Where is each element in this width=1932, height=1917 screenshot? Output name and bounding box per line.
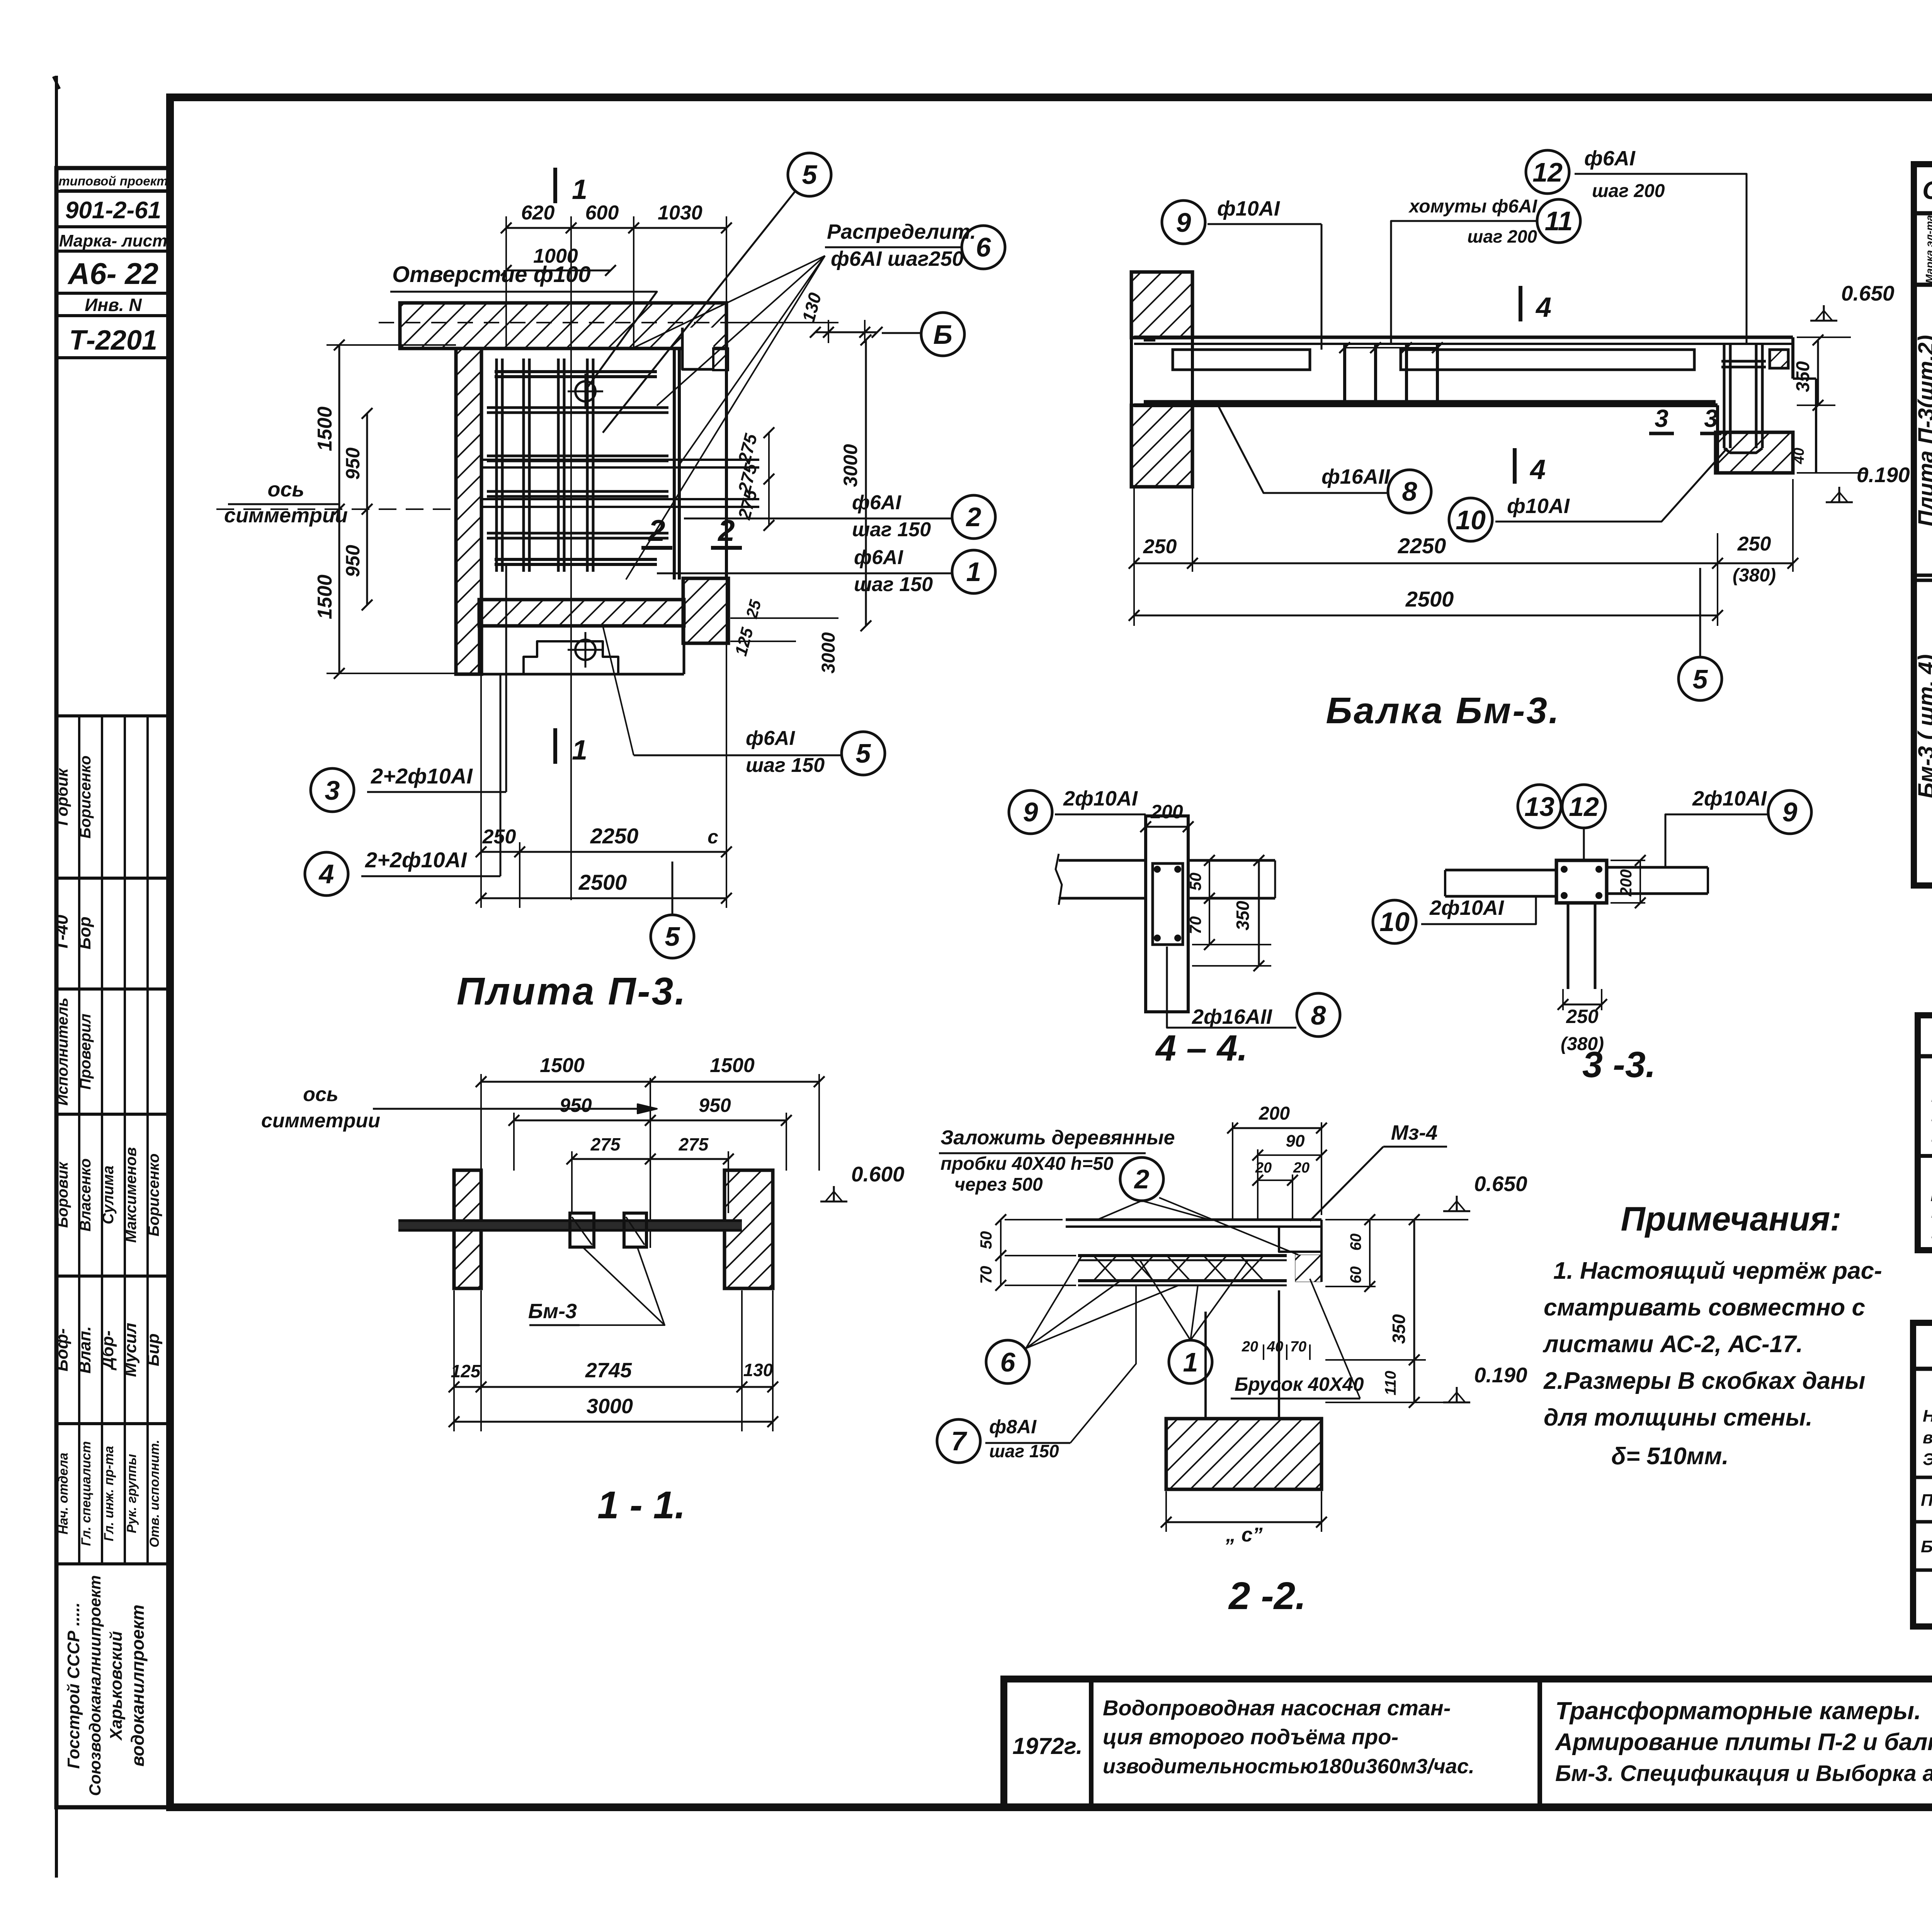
svg-text:Балка Бм-3.: Балка Бм-3. <box>1326 690 1560 731</box>
svg-text:1 - 1.: 1 - 1. <box>597 1484 685 1527</box>
svg-text:200: 200 <box>1617 869 1635 897</box>
svg-text:листами АС-2, АС-17.: листами АС-2, АС-17. <box>1543 1331 1803 1358</box>
svg-text:2 -2.: 2 -2. <box>1228 1574 1306 1618</box>
svg-text:Армирование плиты П-2 и бал: Армирование плиты П-2 и балки <box>1554 1729 1932 1756</box>
svg-text:350: 350 <box>1389 1314 1409 1344</box>
vyborka armatury table <box>1918 1015 1932 1250</box>
svg-text:1972г.: 1972г. <box>1012 1733 1082 1759</box>
svg-text:Бм-3. Спецификация и Выборка: Бм-3. Спецификация и Выборка арматуры. <box>1555 1761 1932 1786</box>
plita dimension lines <box>506 227 726 229</box>
svg-text:Марка эл-та: Марка эл-та <box>1923 215 1932 284</box>
svg-text:Бир: Бир <box>144 1334 163 1366</box>
svg-text:Борисенко: Борисенко <box>145 1154 162 1237</box>
svg-text:60: 60 <box>1347 1234 1364 1251</box>
svg-text:2250: 2250 <box>590 824 639 848</box>
svg-text:Боф-: Боф- <box>53 1328 71 1371</box>
svg-text:90: 90 <box>1286 1132 1305 1151</box>
beam outline and rebar <box>1134 336 1793 339</box>
svg-text:шаг 200: шаг 200 <box>1592 181 1665 201</box>
svg-text:40: 40 <box>1267 1339 1283 1355</box>
svg-text:1: 1 <box>966 557 981 587</box>
svg-text:ция второго подъёма про-: ция второго подъёма про- <box>1103 1725 1398 1749</box>
svg-text:Харьковский: Харьковский <box>107 1631 126 1741</box>
svg-text:275: 275 <box>679 1134 709 1154</box>
svg-text:Элемента: Элемента <box>1923 1450 1932 1469</box>
svg-text:9: 9 <box>1782 797 1798 827</box>
plita rebar grid <box>495 359 498 572</box>
svg-text:600: 600 <box>585 202 619 224</box>
svg-text:2ф10АI: 2ф10АI <box>1692 787 1767 810</box>
svg-text:„ с”: „ с” <box>1225 1524 1262 1546</box>
svg-text:через 500: через 500 <box>954 1174 1043 1195</box>
svg-text:60: 60 <box>1347 1266 1364 1284</box>
svg-text:350: 350 <box>1233 901 1253 930</box>
svg-text:110: 110 <box>1382 1371 1399 1395</box>
svg-text:пробки 40X40 h=50: пробки 40X40 h=50 <box>940 1154 1114 1174</box>
svg-text:10: 10 <box>1379 907 1410 937</box>
svg-text:250: 250 <box>1143 535 1177 558</box>
svg-text:Т-2201: Т-2201 <box>69 325 157 356</box>
svg-text:хомуты ф6АI: хомуты ф6АI <box>1408 196 1538 217</box>
svg-text:Б: Б <box>933 319 952 350</box>
svg-text:3000: 3000 <box>587 1395 633 1418</box>
svg-text:Гл. инж. пр-та: Гл. инж. пр-та <box>102 1446 116 1541</box>
svg-text:0.650: 0.650 <box>1474 1172 1527 1196</box>
svg-text:2+2ф10АI: 2+2ф10АI <box>371 764 473 788</box>
svg-text:4: 4 <box>1535 292 1551 323</box>
svg-text:1: 1 <box>572 174 587 205</box>
svg-text:ф10АI: ф10АI <box>1217 197 1280 220</box>
svg-text:Госстрой СССР .....: Госстрой СССР ..... <box>64 1603 83 1769</box>
svg-text:200: 200 <box>1259 1103 1290 1124</box>
svg-text:ось: ось <box>303 1083 338 1106</box>
svg-text:Бм-3 ( шт. 4): Бм-3 ( шт. 4) <box>1914 654 1932 798</box>
svg-text:вание: вание <box>1923 1428 1932 1447</box>
svg-text:1500: 1500 <box>314 574 336 619</box>
svg-text:Плита П-3.: Плита П-3. <box>457 970 687 1013</box>
svg-text:250: 250 <box>1737 533 1771 555</box>
svg-text:изводительностью180и360м3/час.: изводительностью180и360м3/час. <box>1103 1755 1475 1778</box>
svg-text:2.Размеры В скобках даны: 2.Размеры В скобках даны <box>1543 1368 1866 1394</box>
svg-text:250: 250 <box>1566 1006 1599 1027</box>
svg-text:Брусок 40X40: Брусок 40X40 <box>1235 1373 1364 1395</box>
svg-text:950: 950 <box>342 447 364 480</box>
svg-text:Трансформаторные камеры.: Трансформаторные камеры. <box>1555 1697 1921 1725</box>
svg-text:Союзводоканалниипроект: Союзводоканалниипроект <box>86 1575 104 1796</box>
svg-text:Исполнитель: Исполнитель <box>54 998 71 1106</box>
svg-text:Нач. отдела: Нач. отдела <box>56 1453 71 1535</box>
section 4-4 <box>1059 859 1146 862</box>
svg-text:ф8АI: ф8АI <box>989 1416 1037 1438</box>
svg-text:2500: 2500 <box>1405 587 1454 611</box>
svg-text:40: 40 <box>1791 448 1807 464</box>
svg-text:70: 70 <box>1290 1339 1306 1355</box>
svg-text:Марка- лист: Марка- лист <box>59 231 168 250</box>
svg-text:275: 275 <box>590 1134 621 1154</box>
beam dimension lines <box>1134 563 1793 564</box>
svg-text:7: 7 <box>951 1426 968 1456</box>
svg-text:симметрии: симметрии <box>261 1110 380 1132</box>
svg-text:Распределит.: Распределит. <box>827 220 976 243</box>
svg-text:Мусил: Мусил <box>121 1323 140 1377</box>
specification table <box>1914 164 1932 885</box>
svg-text:2500: 2500 <box>578 870 627 894</box>
svg-text:70: 70 <box>1186 916 1204 935</box>
svg-text:250: 250 <box>482 826 516 848</box>
svg-text:9: 9 <box>1023 797 1038 827</box>
svg-text:3: 3 <box>1655 404 1668 432</box>
svg-text:1030: 1030 <box>658 202 702 224</box>
svg-text:5: 5 <box>802 160 818 190</box>
svg-text:симметрии: симметрии <box>224 504 348 527</box>
svg-text:4: 4 <box>318 859 334 889</box>
svg-text:950: 950 <box>699 1094 731 1116</box>
svg-text:1: 1 <box>1183 1347 1198 1377</box>
svg-text:13: 13 <box>1524 792 1554 822</box>
beam leader labels <box>1162 201 1205 244</box>
svg-text:ф6АI: ф6АI <box>852 491 901 514</box>
svg-text:1500: 1500 <box>314 406 336 451</box>
svg-text:Проверил: Проверил <box>77 1013 94 1089</box>
svg-text:20: 20 <box>1293 1160 1310 1176</box>
svg-text:12: 12 <box>1532 157 1563 187</box>
section 3-3 <box>1556 860 1607 903</box>
svg-text:ф6АI: ф6АI <box>1584 147 1636 170</box>
svg-text:12: 12 <box>1569 792 1599 822</box>
svg-text:Бм-3: Бм-3 <box>528 1300 577 1323</box>
svg-text:2+2ф10АI: 2+2ф10АI <box>365 848 467 872</box>
plita walls hatched <box>400 303 726 348</box>
svg-text:950: 950 <box>560 1094 592 1116</box>
svg-text:ф6АI: ф6АI <box>854 546 903 569</box>
svg-text:Мз-4: Мз-4 <box>1391 1121 1438 1144</box>
svg-text:Власенко: Власенко <box>77 1158 94 1231</box>
svg-text:(380): (380) <box>1733 565 1776 586</box>
svg-text:Инв. N: Инв. N <box>85 295 142 315</box>
sidebar stamp strip <box>56 168 170 1807</box>
svg-text:2ф10АI: 2ф10АI <box>1063 787 1138 810</box>
svg-text:1500: 1500 <box>540 1054 585 1077</box>
svg-text:Наимено-: Наимено- <box>1923 1407 1932 1426</box>
title block <box>1004 1679 1932 1807</box>
balka Bm-3 drawing <box>1131 272 1192 338</box>
svg-text:шаг 150: шаг 150 <box>852 518 931 541</box>
svg-text:Отв. исполнит.: Отв. исполнит. <box>147 1439 162 1547</box>
svg-text:50: 50 <box>1186 873 1204 891</box>
svg-text:50: 50 <box>977 1231 995 1249</box>
svg-text:Рук. группы: Рук. группы <box>124 1454 139 1533</box>
svg-text:3000: 3000 <box>818 632 839 673</box>
svg-text:ф10АI: ф10АI <box>1507 495 1570 518</box>
svg-text:шаг 150: шаг 150 <box>854 573 933 596</box>
svg-text:Дбр-: Дбр- <box>98 1331 117 1371</box>
svg-text:4: 4 <box>1529 454 1546 485</box>
svg-text:ф6АI шаг250: ф6АI шаг250 <box>831 247 964 270</box>
svg-text:3: 3 <box>1704 404 1718 432</box>
svg-text:4 – 4.: 4 – 4. <box>1155 1028 1248 1069</box>
svg-text:Гл. специалист: Гл. специалист <box>79 1441 94 1546</box>
svg-text:Сулима: Сулима <box>100 1166 117 1224</box>
svg-text:20: 20 <box>1242 1339 1258 1355</box>
svg-text:5: 5 <box>856 738 871 768</box>
svg-text:Максименов: Максименов <box>122 1147 139 1243</box>
svg-text:δ= 510мм.: δ= 510мм. <box>1611 1443 1729 1470</box>
svg-text:2ф10АI: 2ф10АI <box>1429 896 1504 919</box>
svg-text:сматривать совместно с: сматривать совместно с <box>1544 1294 1865 1321</box>
svg-text:2745: 2745 <box>585 1359 632 1382</box>
svg-text:с: с <box>707 826 718 848</box>
svg-text:9: 9 <box>1176 207 1191 238</box>
svg-text:2250: 2250 <box>1398 534 1446 558</box>
svg-text:1. Настоящий чертёж рас-: 1. Настоящий чертёж рас- <box>1553 1258 1882 1284</box>
svg-text:Спецификация арматуры на 1элем: Спецификация арматуры на 1элемент <box>1922 176 1932 204</box>
svg-text:5: 5 <box>665 921 680 952</box>
section mark 1-1 cut lines <box>553 168 557 203</box>
svg-text:350: 350 <box>1793 361 1813 392</box>
svg-text:2: 2 <box>1134 1164 1150 1194</box>
svg-text:Примечания:: Примечания: <box>1621 1200 1842 1238</box>
svg-text:5: 5 <box>1693 664 1708 694</box>
svg-text:0.650: 0.650 <box>1841 281 1895 305</box>
svg-text:901-2-61: 901-2-61 <box>65 197 161 224</box>
svg-text:Заложить деревянные: Заложить деревянные <box>940 1127 1175 1149</box>
svg-text:6: 6 <box>976 232 992 262</box>
svg-text:0.190: 0.190 <box>1857 463 1910 487</box>
svg-text:8: 8 <box>1311 1000 1326 1030</box>
svg-text:Бор: Бор <box>75 917 94 950</box>
fold line left edge <box>55 76 58 169</box>
svg-text:Балки Бм-3: Балки Бм-3 <box>1921 1537 1932 1556</box>
svg-text:шаг 150: шаг 150 <box>989 1441 1059 1461</box>
svg-text:1500: 1500 <box>710 1054 755 1077</box>
svg-text:ф16АII: ф16АII <box>1321 465 1390 488</box>
svg-text:шаг 200: шаг 200 <box>1467 226 1537 246</box>
svg-text:Плита П-3(шт.2): Плита П-3(шт.2) <box>1914 335 1932 527</box>
svg-text:11: 11 <box>1545 206 1573 236</box>
svg-text:Борисенко: Борисенко <box>77 756 94 839</box>
svg-text:Плита П-3: Плита П-3 <box>1921 1491 1932 1510</box>
svg-text:6: 6 <box>1000 1347 1016 1377</box>
svg-text:ф6АI: ф6АI <box>746 727 795 749</box>
svg-text:для толщины стены.: для толщины стены. <box>1544 1404 1813 1431</box>
svg-text:А6- 22: А6- 22 <box>67 257 158 291</box>
svg-text:водоканилпроект: водоканилпроект <box>128 1604 148 1766</box>
svg-text:2ф16АII: 2ф16АII <box>1192 1005 1272 1028</box>
svg-text:10: 10 <box>1456 505 1486 535</box>
svg-text:125: 125 <box>451 1361 481 1381</box>
svg-text:3 -3.: 3 -3. <box>1582 1044 1656 1085</box>
svg-text:типовой проект: типовой проект <box>58 174 168 188</box>
svg-text:3: 3 <box>325 775 340 806</box>
svg-text:950: 950 <box>342 545 364 577</box>
svg-text:Отверстие ф100: Отверстие ф100 <box>392 262 591 287</box>
svg-text:Т-40: Т-40 <box>51 914 71 951</box>
svg-text:0.190: 0.190 <box>1474 1363 1527 1387</box>
svg-text:шаг 150: шаг 150 <box>746 754 825 777</box>
svg-text:ось: ось <box>267 478 304 501</box>
svg-text:130: 130 <box>743 1360 773 1380</box>
svg-text:Горбик: Горбик <box>53 768 71 826</box>
svg-text:8: 8 <box>1402 476 1417 506</box>
svg-text:620: 620 <box>521 202 555 224</box>
svg-text:3000: 3000 <box>840 444 861 487</box>
svg-text:70: 70 <box>977 1266 995 1284</box>
section 1-1 <box>481 1081 819 1083</box>
svg-text:Водопроводная насосная стан-: Водопроводная насосная стан- <box>1103 1696 1451 1720</box>
svg-text:Боровик: Боровик <box>54 1161 71 1228</box>
svg-text:1: 1 <box>572 735 587 766</box>
svg-text:0.600: 0.600 <box>851 1162 905 1186</box>
svg-text:Влап.: Влап. <box>75 1326 94 1374</box>
svg-text:2: 2 <box>966 502 981 532</box>
rashod materialov table <box>1913 1323 1932 1626</box>
svg-text:200: 200 <box>1150 801 1183 823</box>
